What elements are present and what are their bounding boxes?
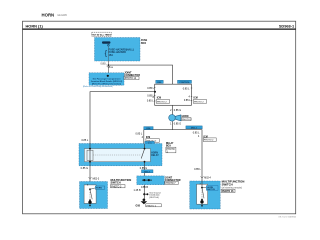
svg-text:GE EWD: GE EWD — [57, 14, 67, 17]
svg-text:0.85 L: 0.85 L — [183, 87, 190, 90]
svg-text:1.25 B: 1.25 B — [134, 189, 141, 192]
inline connector M02-4 — [201, 176, 204, 178]
svg-text:0.85 L: 0.85 L — [82, 139, 89, 142]
svg-text:0.85 G: 0.85 G — [174, 123, 181, 126]
svg-text:M01-1: M01-1 — [191, 127, 198, 129]
svg-text:PHOTO 3: PHOTO 3 — [111, 186, 122, 188]
svg-text:PHOTO 14: PHOTO 14 — [125, 78, 137, 80]
svg-text:HORN: HORN — [42, 13, 55, 18]
svg-text:0.85 L: 0.85 L — [194, 168, 201, 171]
svg-text:HORN: HORN — [96, 188, 102, 190]
connector chip CONTROL — [178, 80, 192, 83]
multifunction switch right box — [190, 181, 221, 209]
svg-text:ICM: ICM — [194, 98, 198, 100]
svg-text:M33-1: M33-1 — [144, 171, 151, 173]
svg-text:0.85 L: 0.85 L — [147, 87, 154, 90]
svg-text:PHOTO 1: PHOTO 1 — [147, 205, 157, 207]
wire joint connector to ground — [143, 185, 145, 199]
wire relay to horn switch left — [89, 166, 91, 185]
bus wire — [144, 130, 202, 181]
relay K1 HORN RELAY body — [84, 149, 150, 162]
svg-text:(Refer to Fuse/Relay Informati: (Refer to Fuse/Relay Information) — [83, 85, 113, 88]
svg-text:15A: 15A — [109, 54, 114, 57]
node B (ground distribution tap) — [143, 193, 145, 195]
wire fuse F1 to fuse box bottom — [107, 46, 109, 61]
horn switch chip — [90, 188, 96, 190]
connector chip M01 right — [186, 126, 202, 129]
svg-text:(Refer Fuse/Relay Information): (Refer Fuse/Relay Information) — [92, 82, 121, 85]
svg-text:0.85 L: 0.85 L — [101, 64, 108, 66]
wire node A to ICM pin — [108, 65, 172, 84]
svg-text:HORN (1): HORN (1) — [26, 23, 44, 28]
svg-text:SD968-1: SD968-1 — [279, 23, 295, 28]
sheet border box — [23, 21, 296, 214]
horn switch chip — [202, 186, 207, 188]
fuse box (engine room junction block) — [95, 38, 141, 62]
header divider line — [23, 28, 296, 30]
inline connector E34 — [107, 66, 111, 68]
svg-text:0.85 L: 0.85 L — [184, 99, 191, 102]
svg-text:BOX: BOX — [141, 43, 146, 45]
svg-text:0.85 L: 0.85 L — [147, 99, 154, 102]
connector chip E34 left — [144, 127, 153, 130]
svg-text:SWITCH: SWITCH — [222, 182, 233, 186]
svg-text:RELAY: RELAY — [151, 154, 159, 157]
wire from ICM left pin — [90, 92, 155, 144]
svg-text:M02-4: M02-4 — [204, 178, 211, 180]
svg-text:PHOTO 2: PHOTO 2 — [157, 102, 167, 104]
svg-text:0.85 G: 0.85 G — [81, 167, 88, 170]
svg-text:0.85 G: 0.85 G — [140, 167, 147, 170]
svg-text:PHOTO 2: PHOTO 2 — [182, 119, 192, 121]
svg-text:HOT AT ALL TIMES: HOT AT ALL TIMES — [92, 33, 111, 36]
wire 0.85L fuse box to joint connector — [107, 61, 109, 76]
inline connector M02-3 — [89, 177, 92, 179]
svg-text:M02-3: M02-3 — [93, 178, 100, 180]
svg-text:RELAY: RELAY — [166, 142, 174, 145]
connector chip E34 on relay box — [145, 141, 155, 144]
svg-text:(SD170-4): (SD170-4) — [149, 197, 159, 199]
svg-text:CONTROL: CONTROL — [179, 82, 190, 84]
multifunction switch left box — [80, 182, 108, 209]
joint connector reference box — [89, 73, 124, 85]
connector chip E06 — [156, 80, 164, 83]
horn H1 — [169, 115, 176, 122]
svg-text:0.85 G: 0.85 G — [174, 109, 181, 112]
ground G08 symbol — [143, 198, 146, 201]
svg-text:0.85 B: 0.85 B — [141, 186, 148, 189]
switch S2 — [197, 184, 208, 204]
node A (fuse output junction) — [108, 64, 110, 66]
svg-text:ICM: ICM — [157, 98, 161, 100]
HOT AT ALL TIMES box — [92, 32, 111, 36]
svg-text:(w/ steering remote): (w/ steering remote) — [222, 186, 243, 189]
svg-text:PHOTO 2: PHOTO 2 — [194, 102, 204, 104]
ICM box U1 — [155, 84, 192, 105]
svg-text:PHOTO 16: PHOTO 16 — [222, 191, 234, 193]
svg-text:SWITCH: SWITCH — [207, 189, 215, 191]
relay K1 contact branch — [144, 144, 146, 149]
joint connector box — [137, 176, 165, 185]
svg-text:PHOTO 2: PHOTO 2 — [204, 140, 214, 142]
svg-text:SWITCH: SWITCH — [111, 181, 121, 185]
svg-text:PHOTO 7: PHOTO 7 — [166, 183, 177, 185]
svg-text:FUSE: FUSE — [141, 40, 148, 42]
svg-text:GE-7021 GAMMA: GE-7021 GAMMA — [278, 216, 296, 219]
svg-text:0.85 L: 0.85 L — [136, 132, 143, 135]
relay K1 coil branch — [89, 144, 91, 166]
svg-text:G08: G08 — [136, 205, 141, 207]
wire horn to bus — [172, 121, 174, 130]
wire ICM bottom to horn — [172, 105, 174, 114]
switch S1 — [84, 185, 96, 204]
fuse F1 — [102, 41, 110, 43]
svg-text:0.85 L: 0.85 L — [193, 132, 200, 135]
relay box (engine room) — [79, 144, 162, 166]
connector chip M33 — [142, 170, 154, 173]
